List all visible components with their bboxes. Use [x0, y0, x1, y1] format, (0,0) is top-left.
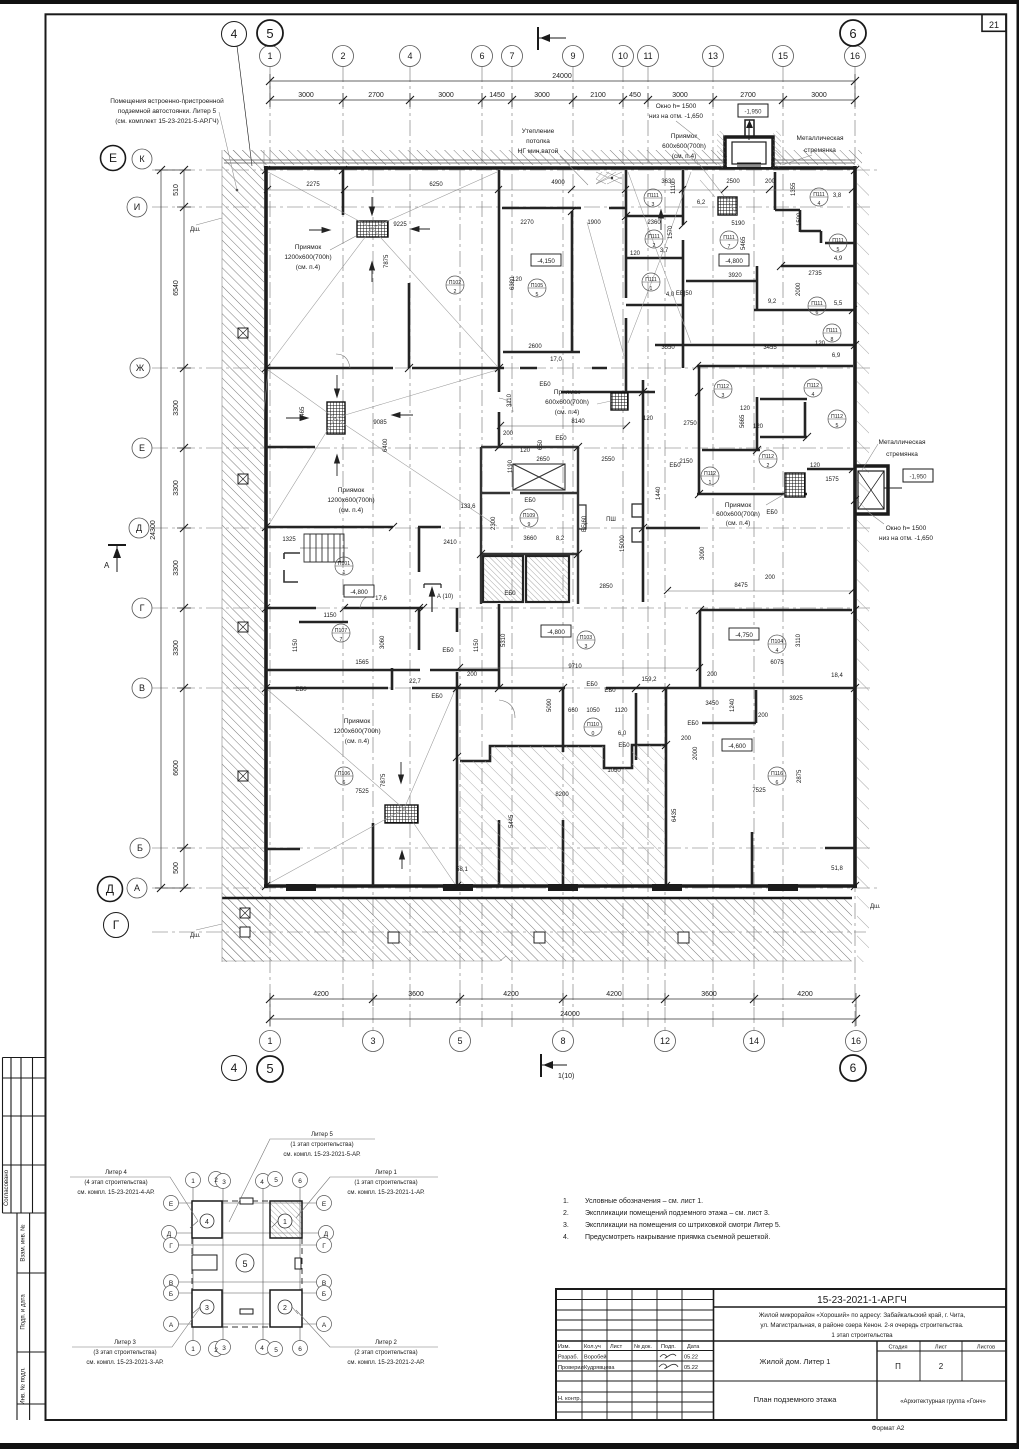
svg-text:стремянка: стремянка — [804, 147, 836, 154]
wall v x757b — [756, 397, 759, 450]
svg-text:2700: 2700 — [368, 92, 384, 99]
svg-text:660: 660 — [568, 708, 579, 714]
svg-text:Б: Б — [137, 843, 143, 853]
svg-text:22,7: 22,7 — [409, 679, 421, 685]
svg-text:4: 4 — [260, 1345, 264, 1352]
svg-text:Лист: Лист — [610, 1344, 623, 1350]
svg-text:ЕБ0: ЕБ0 — [442, 648, 454, 654]
svg-text:низ на отм. -1,650: низ на отм. -1,650 — [879, 535, 933, 542]
svg-text:ПШ: ПШ — [606, 517, 616, 523]
svg-text:(см. п.4): (см. п.4) — [555, 409, 580, 416]
svg-text:120: 120 — [630, 251, 641, 257]
slope arrows — [286, 197, 664, 869]
svg-text:Литер 2: Литер 2 — [375, 1340, 397, 1346]
svg-text:1900: 1900 — [587, 220, 601, 226]
svg-text:ЕБ0: ЕБ0 — [687, 721, 699, 727]
svg-text:8: 8 — [560, 1036, 565, 1046]
svg-text:Ж: Ж — [136, 363, 145, 373]
svg-text:1: 1 — [283, 1219, 287, 1226]
svg-text:№ док.: № док. — [634, 1344, 652, 1350]
grate near G1 hatch cross — [596, 172, 622, 184]
svg-text:-4,750: -4,750 — [735, 632, 753, 639]
callout Liter 4 — [77, 1170, 155, 1196]
svg-text:П109: П109 — [523, 513, 535, 519]
svg-text:5: 5 — [536, 292, 539, 298]
svg-text:Кол.уч: Кол.уч — [584, 1344, 601, 1350]
svg-text:Дш.: Дш. — [190, 227, 201, 233]
wall v x683 — [682, 170, 685, 368]
svg-text:3660: 3660 — [523, 536, 537, 542]
svg-text:(см. п.4): (см. п.4) — [345, 738, 370, 745]
svg-text:200: 200 — [707, 672, 718, 678]
axis lines — [171, 1180, 324, 1348]
svg-text:5310: 5310 — [501, 633, 507, 647]
svg-text:6: 6 — [343, 780, 346, 786]
text blocks in plan — [110, 97, 933, 745]
wall v x419 — [418, 527, 421, 650]
grate G5 — [785, 473, 805, 497]
svg-text:(см. комплект 15-23-2021-5-АР.: (см. комплект 15-23-2021-5-АР.ГЧ) — [115, 118, 219, 125]
svg-text:П111: П111 — [723, 235, 735, 241]
left margin stamp boxes — [3, 1058, 46, 1421]
svg-text:159,2: 159,2 — [641, 677, 657, 683]
svg-text:П112: П112 — [762, 454, 774, 460]
wall h y528 center-right — [646, 527, 700, 530]
svg-text:7: 7 — [509, 51, 514, 61]
svg-text:2700: 2700 — [740, 92, 756, 99]
svg-text:П103: П103 — [580, 635, 592, 641]
svg-text:3: 3 — [205, 1305, 209, 1312]
dim line 8140 — [497, 422, 630, 429]
svg-text:1050: 1050 — [586, 708, 600, 714]
machine room x-rect — [481, 447, 586, 604]
svg-text:5: 5 — [266, 1061, 273, 1076]
T column caps on bottom wall — [286, 884, 798, 891]
svg-text:ЕБ0: ЕБ0 — [504, 591, 516, 597]
svg-text:3455: 3455 — [763, 345, 777, 351]
svg-text:(см. п.4): (см. п.4) — [296, 264, 321, 271]
pilaster columns in left strip — [238, 328, 250, 937]
svg-text:см. компл. 15-23-2021-3-АР.: см. компл. 15-23-2021-3-АР. — [86, 1360, 164, 1366]
svg-text:200: 200 — [681, 736, 692, 742]
svg-text:58,1: 58,1 — [456, 867, 468, 873]
svg-text:Приямок: Приямок — [554, 389, 581, 396]
svg-text:П110: П110 — [587, 722, 599, 728]
grate G4 — [718, 197, 737, 215]
svg-text:4: 4 — [776, 648, 779, 654]
svg-text:Металлическая: Металлическая — [797, 135, 844, 142]
grate G1 — [357, 221, 388, 237]
svg-text:см. компл. 15-23-2021-5-АР.: см. компл. 15-23-2021-5-АР. — [283, 1152, 361, 1158]
svg-text:ЕБ0: ЕБ0 — [295, 687, 307, 693]
svg-text:1500: 1500 — [797, 212, 803, 226]
wall v x643 — [642, 380, 645, 602]
svg-text:П111: П111 — [832, 238, 844, 244]
svg-text:5465: 5465 — [741, 236, 747, 250]
wall stub x343 — [342, 170, 345, 215]
svg-text:см. компл. 15-23-2021-1-АР.: см. компл. 15-23-2021-1-АР. — [347, 1190, 425, 1196]
callout Liter 5 — [283, 1132, 361, 1158]
svg-text:17,6: 17,6 — [375, 596, 387, 602]
svg-text:3: 3 — [222, 1345, 226, 1352]
svg-text:51,8: 51,8 — [831, 866, 843, 872]
svg-text:1355: 1355 — [791, 182, 797, 196]
wall h y345 cluster bottom — [655, 344, 855, 347]
in-plan dimension texts — [282, 179, 843, 873]
svg-text:2735: 2735 — [808, 271, 822, 277]
svg-text:7: 7 — [728, 244, 731, 250]
svg-text:5,5: 5,5 — [834, 301, 843, 307]
svg-text:П112: П112 — [831, 414, 843, 420]
svg-text:6,2: 6,2 — [697, 200, 706, 206]
left axis circles — [127, 149, 152, 898]
vertical axis lines top set — [152, 66, 880, 1030]
svg-text:3: 3 — [722, 393, 725, 399]
svg-text:120: 120 — [520, 448, 531, 454]
svg-text:-4,800: -4,800 — [725, 258, 743, 265]
svg-text:133,6: 133,6 — [460, 504, 476, 510]
svg-text:1: 1 — [709, 480, 712, 486]
svg-text:Лист: Лист — [935, 1345, 948, 1351]
svg-text:-4,800: -4,800 — [547, 629, 565, 636]
svg-text:2000: 2000 — [693, 746, 699, 760]
svg-text:3: 3 — [585, 644, 588, 650]
svg-text:1570: 1570 — [668, 225, 674, 239]
svg-text:6: 6 — [850, 1061, 857, 1075]
svg-text:21: 21 — [989, 20, 999, 30]
wall h y469 — [807, 468, 853, 471]
elevation boxes — [344, 254, 759, 751]
svg-text:Экспликации помещений подземно: Экспликации помещений подземного этажа –… — [585, 1209, 770, 1217]
svg-text:Инв. № подл.: Инв. № подл. — [20, 1367, 27, 1405]
svg-text:Жилой микрорайон «Хороший» по: Жилой микрорайон «Хороший» по адресу: За… — [759, 1312, 966, 1319]
svg-text:3000: 3000 — [672, 92, 688, 99]
svg-text:А (10): А (10) — [437, 594, 453, 600]
svg-text:А: А — [322, 1322, 327, 1329]
svg-text:А: А — [169, 1322, 174, 1329]
svg-text:3600: 3600 — [408, 991, 424, 998]
svg-text:Б: Б — [169, 1291, 173, 1298]
svg-text:4: 4 — [231, 27, 238, 41]
svg-text:8140: 8140 — [571, 419, 585, 425]
svg-text:6250: 6250 — [429, 182, 443, 188]
corner block 3 — [192, 1290, 222, 1327]
wall h y670 — [266, 668, 500, 690]
svg-text:Экспликации на помещения со шт: Экспликации на помещения со штриховкой с… — [585, 1221, 781, 1229]
wall v x821 — [820, 231, 823, 243]
svg-text:05.22: 05.22 — [684, 1365, 698, 1371]
svg-text:1120: 1120 — [615, 708, 629, 714]
svg-text:Жилой дом. Литер 1: Жилой дом. Литер 1 — [760, 1357, 831, 1366]
wall h y622 — [299, 621, 348, 624]
signatures squiggles — [659, 1354, 678, 1368]
svg-text:24000: 24000 — [552, 73, 572, 80]
Дш labels — [190, 227, 881, 939]
svg-text:6,9: 6,9 — [832, 353, 841, 359]
top thin insulation line — [224, 160, 855, 163]
svg-text:4200: 4200 — [797, 991, 813, 998]
wall y216 stub — [626, 215, 684, 218]
wall v x699 — [698, 366, 701, 494]
wall bottom — [264, 884, 857, 888]
svg-text:Окно h= 1500: Окно h= 1500 — [656, 103, 697, 110]
wall v x805 — [804, 402, 807, 437]
svg-text:13: 13 — [708, 51, 718, 61]
svg-text:А: А — [104, 561, 110, 570]
wall notch y723 — [702, 690, 756, 723]
svg-text:1190: 1190 — [508, 459, 514, 473]
svg-text:Приямок: Приямок — [344, 718, 371, 725]
svg-text:2360: 2360 — [647, 220, 661, 226]
svg-text:1325: 1325 — [282, 537, 296, 543]
svg-text:Листов: Листов — [977, 1345, 995, 1351]
svg-text:5: 5 — [836, 423, 839, 429]
svg-text:П112: П112 — [704, 471, 716, 477]
svg-text:ЕБ0: ЕБ0 — [555, 436, 567, 442]
svg-text:8200: 8200 — [555, 792, 569, 798]
svg-text:ЕБ|50: ЕБ|50 — [676, 291, 693, 297]
wall h y527 left — [266, 526, 441, 529]
room tag circles — [332, 188, 847, 785]
wall v x563 — [562, 688, 565, 886]
stair-area hatch bottom center — [460, 745, 664, 884]
svg-text:2500: 2500 — [726, 179, 740, 185]
svg-text:П111: П111 — [647, 193, 659, 199]
wall junction tick marks — [262, 166, 859, 890]
svg-text:В: В — [322, 1280, 326, 1287]
svg-text:8,2: 8,2 — [556, 536, 565, 542]
wall v x775 — [774, 172, 777, 210]
svg-text:4: 4 — [818, 201, 821, 207]
svg-text:24000: 24000 — [560, 1011, 580, 1018]
svg-text:7525: 7525 — [752, 788, 766, 794]
svg-text:П112: П112 — [717, 384, 729, 390]
svg-text:1050: 1050 — [607, 768, 621, 774]
svg-text:9: 9 — [570, 51, 575, 61]
svg-text:Окно h= 1500: Окно h= 1500 — [886, 525, 927, 532]
svg-text:1240: 1240 — [730, 698, 736, 712]
top axis circles — [260, 46, 866, 67]
svg-text:П111: П111 — [645, 277, 657, 283]
svg-text:3110: 3110 — [507, 393, 513, 407]
horizontals left part — [556, 1300, 714, 1413]
svg-text:9225: 9225 — [393, 222, 407, 228]
svg-text:3: 3 — [652, 202, 655, 208]
wall h y266 — [781, 265, 855, 268]
svg-text:2: 2 — [214, 1177, 218, 1184]
stepped wall bottom center — [460, 745, 666, 768]
svg-text:650: 650 — [538, 439, 544, 450]
svg-text:Д: Д — [324, 1231, 329, 1238]
svg-text:2: 2 — [939, 1362, 944, 1371]
leader lines for callouts — [196, 112, 884, 930]
svg-text:1440: 1440 — [656, 486, 662, 500]
svg-text:4: 4 — [231, 1061, 238, 1075]
wall v x499 — [498, 170, 501, 886]
svg-text:200: 200 — [503, 431, 514, 437]
svg-text:низ на отм. -1,650: низ на отм. -1,650 — [649, 113, 703, 120]
svg-text:3060: 3060 — [380, 635, 386, 649]
svg-text:Е: Е — [169, 1201, 174, 1208]
corner L marks — [284, 553, 300, 582]
svg-text:6600: 6600 — [173, 760, 180, 776]
svg-text:6: 6 — [298, 1178, 302, 1185]
svg-text:3,8: 3,8 — [833, 193, 842, 199]
svg-text:6540: 6540 — [173, 280, 180, 296]
svg-text:3110: 3110 — [796, 633, 802, 647]
left dim chain — [155, 170, 191, 888]
svg-text:3000: 3000 — [438, 92, 454, 99]
small rects — [192, 1198, 301, 1314]
svg-text:1 этап строительства: 1 этап строительства — [831, 1332, 893, 1339]
wall h y352 P105 — [503, 351, 580, 354]
svg-text:500: 500 — [173, 862, 180, 874]
wall v x457 — [456, 672, 459, 886]
dim line 8475 — [460, 591, 853, 668]
svg-text:3090: 3090 — [700, 546, 706, 560]
svg-text:1150: 1150 — [474, 638, 480, 652]
svg-text:П107: П107 — [335, 628, 347, 634]
svg-text:10: 10 — [618, 51, 628, 61]
interior dim line below top wall — [268, 189, 853, 191]
otmostka hatch top band — [222, 150, 862, 165]
svg-text:П104: П104 — [771, 639, 783, 645]
svg-text:П112: П112 — [807, 383, 819, 389]
vertical axis lines bottom set — [373, 170, 754, 1030]
svg-text:Н. контр.: Н. контр. — [558, 1396, 582, 1402]
svg-text:Дата: Дата — [687, 1344, 700, 1350]
svg-text:120: 120 — [740, 406, 751, 412]
svg-text:1: 1 — [267, 1036, 272, 1046]
svg-text:5090: 5090 — [547, 698, 553, 712]
svg-text:(3 этап строительства): (3 этап строительства) — [93, 1350, 156, 1356]
svg-text:4200: 4200 — [503, 991, 519, 998]
dashed connecting square — [192, 1201, 302, 1327]
svg-text:7: 7 — [340, 637, 343, 643]
wall h y450 cluster — [702, 449, 760, 452]
svg-text:6: 6 — [816, 310, 819, 316]
svg-text:3550: 3550 — [661, 345, 675, 351]
svg-text:-4,150: -4,150 — [537, 258, 555, 265]
svg-text:4.: 4. — [563, 1234, 569, 1241]
keyplan axis circles left — [162, 1196, 179, 1332]
svg-text:9465: 9465 — [300, 406, 306, 420]
svg-text:Приямок: Приямок — [338, 487, 365, 494]
svg-text:3450: 3450 — [705, 701, 719, 707]
svg-text:2: 2 — [767, 463, 770, 469]
svg-text:1200х600(700h): 1200х600(700h) — [284, 254, 331, 261]
svg-text:17,0: 17,0 — [550, 357, 562, 363]
svg-text:200: 200 — [765, 179, 776, 185]
inner numbered circles — [200, 1214, 292, 1314]
grate G6 — [385, 805, 418, 823]
svg-text:К: К — [139, 154, 145, 164]
svg-text:8: 8 — [831, 337, 834, 343]
svg-text:3,7: 3,7 — [660, 248, 669, 254]
svg-text:Предусмотреть накрывание приям: Предусмотреть накрывание приямка съемной… — [585, 1233, 770, 1241]
svg-text:(1 этап строительства): (1 этап строительства) — [354, 1180, 417, 1186]
svg-text:4200: 4200 — [606, 991, 622, 998]
svg-text:6435: 6435 — [672, 808, 678, 822]
stairs symbol — [300, 534, 348, 562]
svg-text:6: 6 — [776, 780, 779, 786]
svg-text:Формат А2: Формат А2 — [872, 1425, 905, 1432]
left stamp rotated labels — [4, 1169, 27, 1404]
svg-text:5: 5 — [837, 247, 840, 253]
svg-text:12: 12 — [660, 1036, 670, 1046]
svg-text:ЕБ0: ЕБ0 — [431, 694, 443, 700]
svg-text:510: 510 — [173, 184, 180, 196]
svg-text:Дш.: Дш. — [870, 904, 881, 910]
bottom band heavy edge — [222, 897, 852, 900]
wall stubs x643 — [632, 504, 643, 542]
svg-text:9: 9 — [528, 522, 531, 528]
svg-text:Изм.: Изм. — [558, 1344, 570, 1350]
svg-text:НГ мин.ватой: НГ мин.ватой — [518, 147, 559, 155]
wall h y392 — [561, 391, 655, 394]
svg-text:Д: Д — [136, 523, 142, 533]
svg-text:П102: П102 — [449, 280, 461, 286]
svg-text:1: 1 — [343, 570, 346, 576]
svg-text:ЕБ0: ЕБ0 — [539, 382, 551, 388]
svg-text:ЕБ0: ЕБ0 — [766, 510, 778, 516]
corner block 2 — [270, 1290, 302, 1327]
svg-text:2300: 2300 — [491, 516, 497, 530]
svg-text:Б: Б — [322, 1291, 326, 1298]
svg-text:см. компл. 15-23-2021-4-АР.: см. компл. 15-23-2021-4-АР. — [77, 1190, 155, 1196]
svg-text:120: 120 — [753, 424, 764, 430]
svg-text:2270: 2270 — [520, 220, 534, 226]
wall h y610 right — [700, 610, 852, 688]
wall h y368 — [266, 367, 504, 370]
svg-text:4900: 4900 — [551, 180, 565, 186]
svg-text:1.: 1. — [563, 1198, 569, 1205]
svg-text:Подп.: Подп. — [661, 1344, 676, 1350]
svg-text:Приямок: Приямок — [671, 133, 698, 140]
svg-text:15-23-2021-1-АР.ГЧ: 15-23-2021-1-АР.ГЧ — [817, 1295, 907, 1306]
svg-text:Согласовано: Согласовано — [4, 1169, 10, 1206]
big section circles bottom — [222, 1055, 867, 1082]
svg-text:6380: 6380 — [510, 276, 516, 290]
svg-text:Литер 4: Литер 4 — [105, 1170, 127, 1176]
svg-text:Литер 3: Литер 3 — [114, 1340, 136, 1346]
svg-text:Помещения встроенно-пристроенн: Помещения встроенно-пристроенной — [110, 97, 224, 105]
svg-text:4,9: 4,9 — [834, 256, 843, 262]
section mark bottom — [541, 1054, 567, 1077]
keyplan axis circles right — [317, 1196, 334, 1332]
svg-text:(см. п.4): (см. п.4) — [672, 153, 697, 160]
svg-text:А: А — [134, 883, 140, 893]
svg-text:Металлическая: Металлическая — [879, 439, 926, 446]
svg-text:120: 120 — [815, 341, 826, 347]
svg-text:2: 2 — [653, 243, 656, 249]
left strip edge — [221, 150, 223, 962]
svg-text:3: 3 — [222, 1179, 226, 1186]
svg-text:1110: 1110 — [671, 181, 677, 194]
section mark top — [538, 27, 566, 50]
svg-text:2600: 2600 — [528, 344, 542, 350]
svg-text:3000: 3000 — [534, 92, 550, 99]
svg-text:9710: 9710 — [568, 664, 582, 670]
svg-text:3300: 3300 — [173, 400, 180, 416]
svg-text:7875: 7875 — [381, 773, 387, 787]
wall v x757 — [756, 266, 759, 310]
wall stub y447 — [266, 446, 315, 449]
horizontal letter axis lines — [152, 170, 880, 932]
verticals left part — [582, 1289, 682, 1420]
svg-text:200: 200 — [765, 575, 776, 581]
svg-text:600х600(700h): 600х600(700h) — [545, 399, 589, 406]
